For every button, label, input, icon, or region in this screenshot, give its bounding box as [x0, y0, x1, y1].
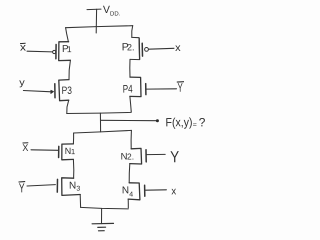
wire input X-bar to N1 — [31, 149, 58, 152]
transistor P3 body — [59, 80, 69, 101]
svg-text:N: N — [122, 185, 129, 196]
transistor N2 gate bar — [145, 150, 147, 162]
wire input y to P3 — [23, 91, 51, 92]
wire N1 source to N3 drain — [72, 159, 74, 178]
svg-text:3: 3 — [76, 186, 80, 193]
svg-text:Y: Y — [170, 149, 179, 166]
svg-text:DD.: DD. — [110, 10, 121, 17]
transistor N1 body — [62, 144, 74, 160]
svg-text:F(x,y): F(x,y) — [165, 115, 192, 129]
svg-text:?: ? — [199, 115, 206, 129]
transistor P2 gate bar — [141, 43, 143, 56]
wire VDD stem — [95, 9, 97, 33]
svg-text:Y: Y — [19, 180, 25, 195]
svg-text:2.: 2. — [127, 42, 135, 52]
wire P3 source down to output rail — [67, 100, 69, 113]
svg-text:2.: 2. — [127, 151, 134, 161]
transistor P1 gate bubble — [53, 50, 56, 53]
wire input Y-bar to N3 — [27, 185, 55, 186]
wire P2 gate to x — [149, 47, 174, 50]
svg-text:y: y — [19, 77, 25, 88]
transistor P3 gate bar — [54, 84, 56, 98]
wire rail to N1 drain — [72, 133, 74, 144]
wire N2 gate to Y — [147, 153, 165, 155]
input arrow blob at P3 gate — [51, 90, 54, 93]
wire left PUN branch (rail to P1 drain) — [66, 28, 69, 42]
transistor P4 body (mirrored) — [130, 77, 141, 97]
svg-text:N: N — [69, 181, 76, 192]
svg-text:P4: P4 — [123, 83, 133, 95]
transistor N1 gate bar — [58, 146, 60, 157]
svg-text:4: 4 — [129, 191, 133, 198]
wire output branch — [101, 119, 157, 121]
svg-text:P3: P3 — [62, 85, 73, 97]
transistor N3 gate bar — [56, 179, 58, 192]
ground bar 3 — [99, 230, 105, 232]
svg-text:=: = — [193, 122, 197, 129]
svg-text:1: 1 — [71, 147, 75, 156]
wire PDN top rail — [74, 130, 132, 133]
VDD supply tick — [87, 8, 101, 11]
svg-text:V: V — [103, 4, 110, 16]
wire P2 source to P4 drain — [129, 59, 131, 77]
wire rail to N2 drain — [130, 130, 132, 148]
svg-text:x: x — [171, 185, 177, 197]
ground bar 1 — [92, 222, 113, 224]
wire PUN bottom rail — [67, 111, 131, 113]
wire right PUN branch (rail to P2 drain) — [131, 26, 134, 38]
transistor P2 gate bubble — [145, 48, 149, 52]
transistor P1 body — [59, 42, 71, 61]
wire P1 source to P3 drain — [69, 60, 70, 79]
transistor P1 gate bar — [55, 45, 57, 59]
svg-text:1: 1 — [67, 44, 72, 54]
transistor P4 gate bar — [145, 84, 147, 95]
transistor N4 gate bar — [144, 185, 146, 196]
output dot — [156, 119, 159, 122]
transistor P2 channel emphasis — [138, 38, 140, 59]
wire N2 source to N4 drain — [128, 164, 131, 183]
transistor P2 body (mirrored) — [130, 37, 140, 59]
wire PDN bottom rail — [81, 207, 129, 209]
svg-text:X: X — [22, 143, 29, 154]
wire top rail — [66, 26, 133, 28]
wire N3 source to ground rail — [79, 195, 81, 208]
svg-text:x: x — [175, 42, 181, 54]
svg-text:Y: Y — [177, 81, 183, 95]
wire N4 gate to x — [146, 189, 167, 191]
transistor N4 body (mirrored) — [128, 183, 140, 200]
ground bar 2 — [98, 226, 106, 228]
transistor N2 body (mirrored) — [130, 148, 142, 164]
wire center node stem — [99, 113, 101, 132]
wire input x-bar to P1 — [27, 50, 53, 53]
wire P4 source down to output rail — [130, 96, 131, 111]
wire ground stem — [101, 208, 103, 223]
transistor N3 body — [62, 178, 80, 196]
wire N4 source to ground rail — [127, 199, 129, 208]
wire P4 gate to y-bar — [147, 88, 177, 90]
